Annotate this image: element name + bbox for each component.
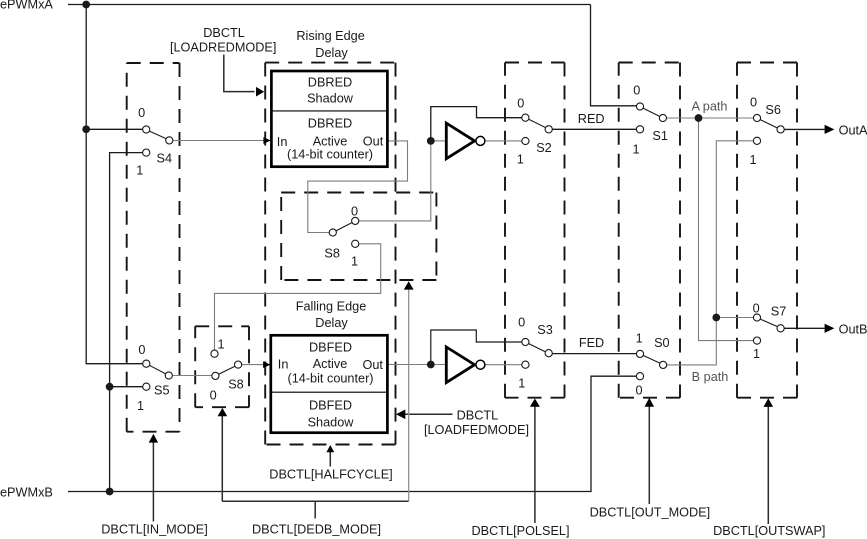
wire inverter U2 output to S3-1 (486, 364, 522, 366)
svg-text:Falling Edge: Falling Edge (296, 300, 367, 314)
svg-text:Active: Active (313, 134, 348, 148)
svg-text:DBCTL[DEDB_MODE]: DBCTL[DEDB_MODE] (252, 522, 381, 536)
switch S8 upper (DEDB) (324, 205, 358, 269)
wire ePWMxA vertical drop to S5-0 (86, 5, 143, 364)
switch S0 (635, 332, 669, 398)
wire ePWMxA trunk (68, 4, 591, 6)
svg-text:1: 1 (636, 332, 643, 346)
svg-text:S8: S8 (228, 378, 244, 392)
svg-text:S4: S4 (157, 152, 173, 166)
svg-text:S0: S0 (654, 336, 670, 350)
control line DBCTL[DEDB_MODE] bus (222, 416, 408, 519)
inverter U2 (446, 347, 485, 383)
wire S4 common to DBRED In (173, 140, 264, 142)
wire upper S8-1 chain down to lower S8-1 (215, 244, 381, 350)
control line DBCTL[IN_MODE] (152, 443, 154, 522)
wire inverter U1 input stub (431, 140, 446, 142)
svg-text:(14-bit counter): (14-bit counter) (287, 372, 373, 386)
wire jog inverter U1 node up to S2-0 (431, 107, 522, 141)
svg-text:Out: Out (363, 358, 384, 372)
wire RED from S2 common to S1-1 (552, 128, 637, 130)
arrowhead LOADREDMODE (256, 87, 264, 97)
switch S3 (518, 316, 553, 391)
svg-text:1: 1 (749, 153, 756, 167)
svg-text:DBCTL[HALFCYCLE]: DBCTL[HALFCYCLE] (269, 468, 392, 482)
switch S5 (137, 343, 172, 413)
svg-text:FED: FED (579, 336, 604, 350)
wire A path down to S7-1 (699, 118, 755, 341)
junction branch to S5-1 (106, 383, 114, 391)
svg-text:0: 0 (633, 83, 640, 97)
svg-text:DBCTL: DBCTL (457, 409, 499, 423)
svg-text:S1: S1 (652, 129, 668, 143)
svg-text:ePWMxA: ePWMxA (0, 0, 53, 12)
wire branch B path to S7-0 (716, 317, 754, 319)
svg-text:Active: Active (313, 357, 348, 371)
svg-text:1: 1 (217, 338, 224, 352)
wire ePWMxB trunk up to S0-0 (68, 376, 637, 491)
svg-text:Delay: Delay (315, 316, 348, 330)
svg-text:DBCTL[OUTSWAP]: DBCTL[OUTSWAP] (713, 524, 825, 538)
svg-text:[LOADFEDMODE]: [LOADFEDMODE] (424, 423, 529, 437)
switch S1 (632, 83, 667, 156)
wire upper S8-0 up to inverter U1 node (359, 141, 431, 221)
svg-text:DBRED: DBRED (308, 75, 352, 89)
svg-text:S8: S8 (324, 247, 340, 261)
wire S4-1 to ePWMxB vertical (110, 153, 144, 492)
control line DBCTL[LOADREDMODE] (224, 55, 255, 92)
svg-text:In: In (278, 358, 289, 372)
svg-text:S5: S5 (154, 384, 170, 398)
svg-text:1: 1 (351, 255, 358, 269)
control line DBCTL[OUTSWAP] (767, 407, 769, 525)
svg-text:1: 1 (518, 377, 525, 391)
svg-text:ePWMxB: ePWMxB (0, 485, 53, 499)
control line DBCTL[HALFCYCLE] (329, 452, 331, 467)
arrowhead into DBFED In (263, 361, 270, 368)
svg-text:1: 1 (137, 399, 144, 413)
switch S6 (749, 96, 784, 168)
switch S8 lower (DEDB) (210, 338, 244, 403)
arrowhead DEDB upper S8 box (404, 281, 414, 289)
arrowhead DEDB lower S8 box (218, 408, 228, 416)
wire FED from S3 common to S0-1 (552, 353, 637, 355)
svg-text:Rising Edge: Rising Edge (296, 29, 364, 43)
wire OutA lead (784, 128, 825, 130)
svg-text:0: 0 (517, 96, 524, 110)
switch S7 (753, 301, 787, 361)
arrowhead OUT_MODE (645, 398, 655, 407)
wire S1 common to A path node and S6-0 (666, 117, 753, 119)
POLSEL switch region box (S2/S3) (505, 63, 565, 398)
inverter U1 (446, 123, 485, 159)
junction inverter U1 input node (427, 137, 435, 145)
DEDB upper S8 region box (281, 193, 436, 281)
wire lower S8 common to DBFED In (242, 364, 264, 366)
wire branch to S4-0 (86, 128, 143, 130)
svg-text:RED: RED (578, 112, 605, 126)
control line DBCTL[POLSEL] (534, 407, 536, 524)
junction ePWMxA trunk (82, 1, 90, 9)
svg-text:0: 0 (138, 343, 145, 357)
IN_MODE switch region box (S4/S5) (127, 63, 180, 432)
svg-text:DBCTL[POLSEL]: DBCTL[POLSEL] (471, 524, 569, 538)
arrowhead POLSEL (530, 399, 540, 407)
svg-text:[LOADREDMODE]: [LOADREDMODE] (170, 41, 276, 55)
svg-text:DBCTL: DBCTL (203, 26, 245, 40)
OUTSWAP switch region box (S6/S7) (737, 63, 797, 398)
arrowhead into DBRED In (263, 137, 270, 144)
control line DEDB_MODE riser to upper S8 box (408, 289, 410, 501)
svg-text:S2: S2 (536, 141, 552, 155)
svg-text:(14-bit counter): (14-bit counter) (287, 148, 373, 162)
svg-text:A path: A path (692, 99, 728, 113)
wire OutB lead (784, 327, 825, 329)
svg-text:OutB: OutB (839, 322, 867, 336)
svg-text:0: 0 (635, 384, 642, 398)
wire inverter U1 output to S2-1 (486, 140, 522, 142)
wire jog inverter U2 node up to S3-0 (431, 330, 522, 365)
svg-text:DBCTL[IN_MODE]: DBCTL[IN_MODE] (101, 522, 207, 536)
svg-text:Shadow: Shadow (308, 416, 355, 430)
arrowhead OutB (825, 324, 835, 333)
block DBRED (Rising Edge Delay) (271, 71, 387, 167)
svg-text:B path: B path (692, 370, 729, 384)
switch S2 (517, 96, 553, 166)
wire DBFED Out to inverter U2 (388, 364, 446, 366)
wire S0 common B path up to S6-1 (667, 141, 754, 365)
arrowhead HALFCYCLE (326, 445, 334, 452)
svg-text:1: 1 (632, 143, 639, 157)
svg-text:DBFED: DBFED (309, 341, 352, 355)
junction A path node (695, 114, 703, 122)
svg-text:Shadow: Shadow (307, 92, 354, 106)
wire DBRED Out feedback down to upper S8 common (308, 141, 408, 233)
svg-text:0: 0 (753, 301, 760, 315)
svg-text:1: 1 (753, 347, 760, 361)
arrowhead OUTSWAP (764, 398, 774, 407)
svg-text:0: 0 (518, 316, 525, 330)
svg-text:0: 0 (351, 205, 358, 219)
wire branch to S5-1 (110, 386, 144, 388)
svg-text:S3: S3 (537, 323, 553, 337)
svg-text:S7: S7 (771, 304, 787, 318)
arrowhead OutA (825, 125, 835, 134)
svg-text:OutA: OutA (839, 124, 867, 138)
arrowhead LOADFEDMODE (396, 410, 405, 420)
junction B path branch to S7-0 (712, 314, 720, 322)
svg-text:Out: Out (363, 135, 384, 149)
junction branch to S4-0 (82, 125, 90, 133)
arrowhead IN_MODE (149, 434, 158, 443)
wire S5 common to lower S8-0 (172, 375, 212, 377)
svg-text:DBCTL[OUT_MODE]: DBCTL[OUT_MODE] (590, 506, 711, 520)
control line DBCTL[LOADFEDMODE] (405, 413, 453, 415)
svg-text:0: 0 (210, 389, 217, 403)
svg-text:0: 0 (750, 96, 757, 110)
svg-text:DBFED: DBFED (309, 399, 352, 413)
junction inverter U2 input node (427, 361, 435, 369)
svg-text:DBRED: DBRED (308, 117, 352, 131)
control line DBCTL[OUT_MODE] (648, 407, 650, 505)
wire drop to S1-0 (591, 5, 637, 106)
block DBFED (Falling Edge Delay) (271, 335, 388, 432)
svg-text:0: 0 (138, 106, 145, 120)
junction ePWMxB trunk (106, 488, 114, 496)
svg-text:S6: S6 (765, 103, 781, 117)
OUT_MODE switch region box (S1/S0) (619, 63, 680, 398)
delay block region box (DBRED/DBFED) (265, 63, 395, 445)
DEDB lower S8 region box (195, 326, 249, 407)
switch S4 (136, 106, 173, 178)
svg-text:1: 1 (136, 164, 143, 178)
svg-text:In: In (277, 135, 288, 149)
svg-text:1: 1 (517, 152, 524, 166)
svg-text:Delay: Delay (315, 46, 348, 60)
